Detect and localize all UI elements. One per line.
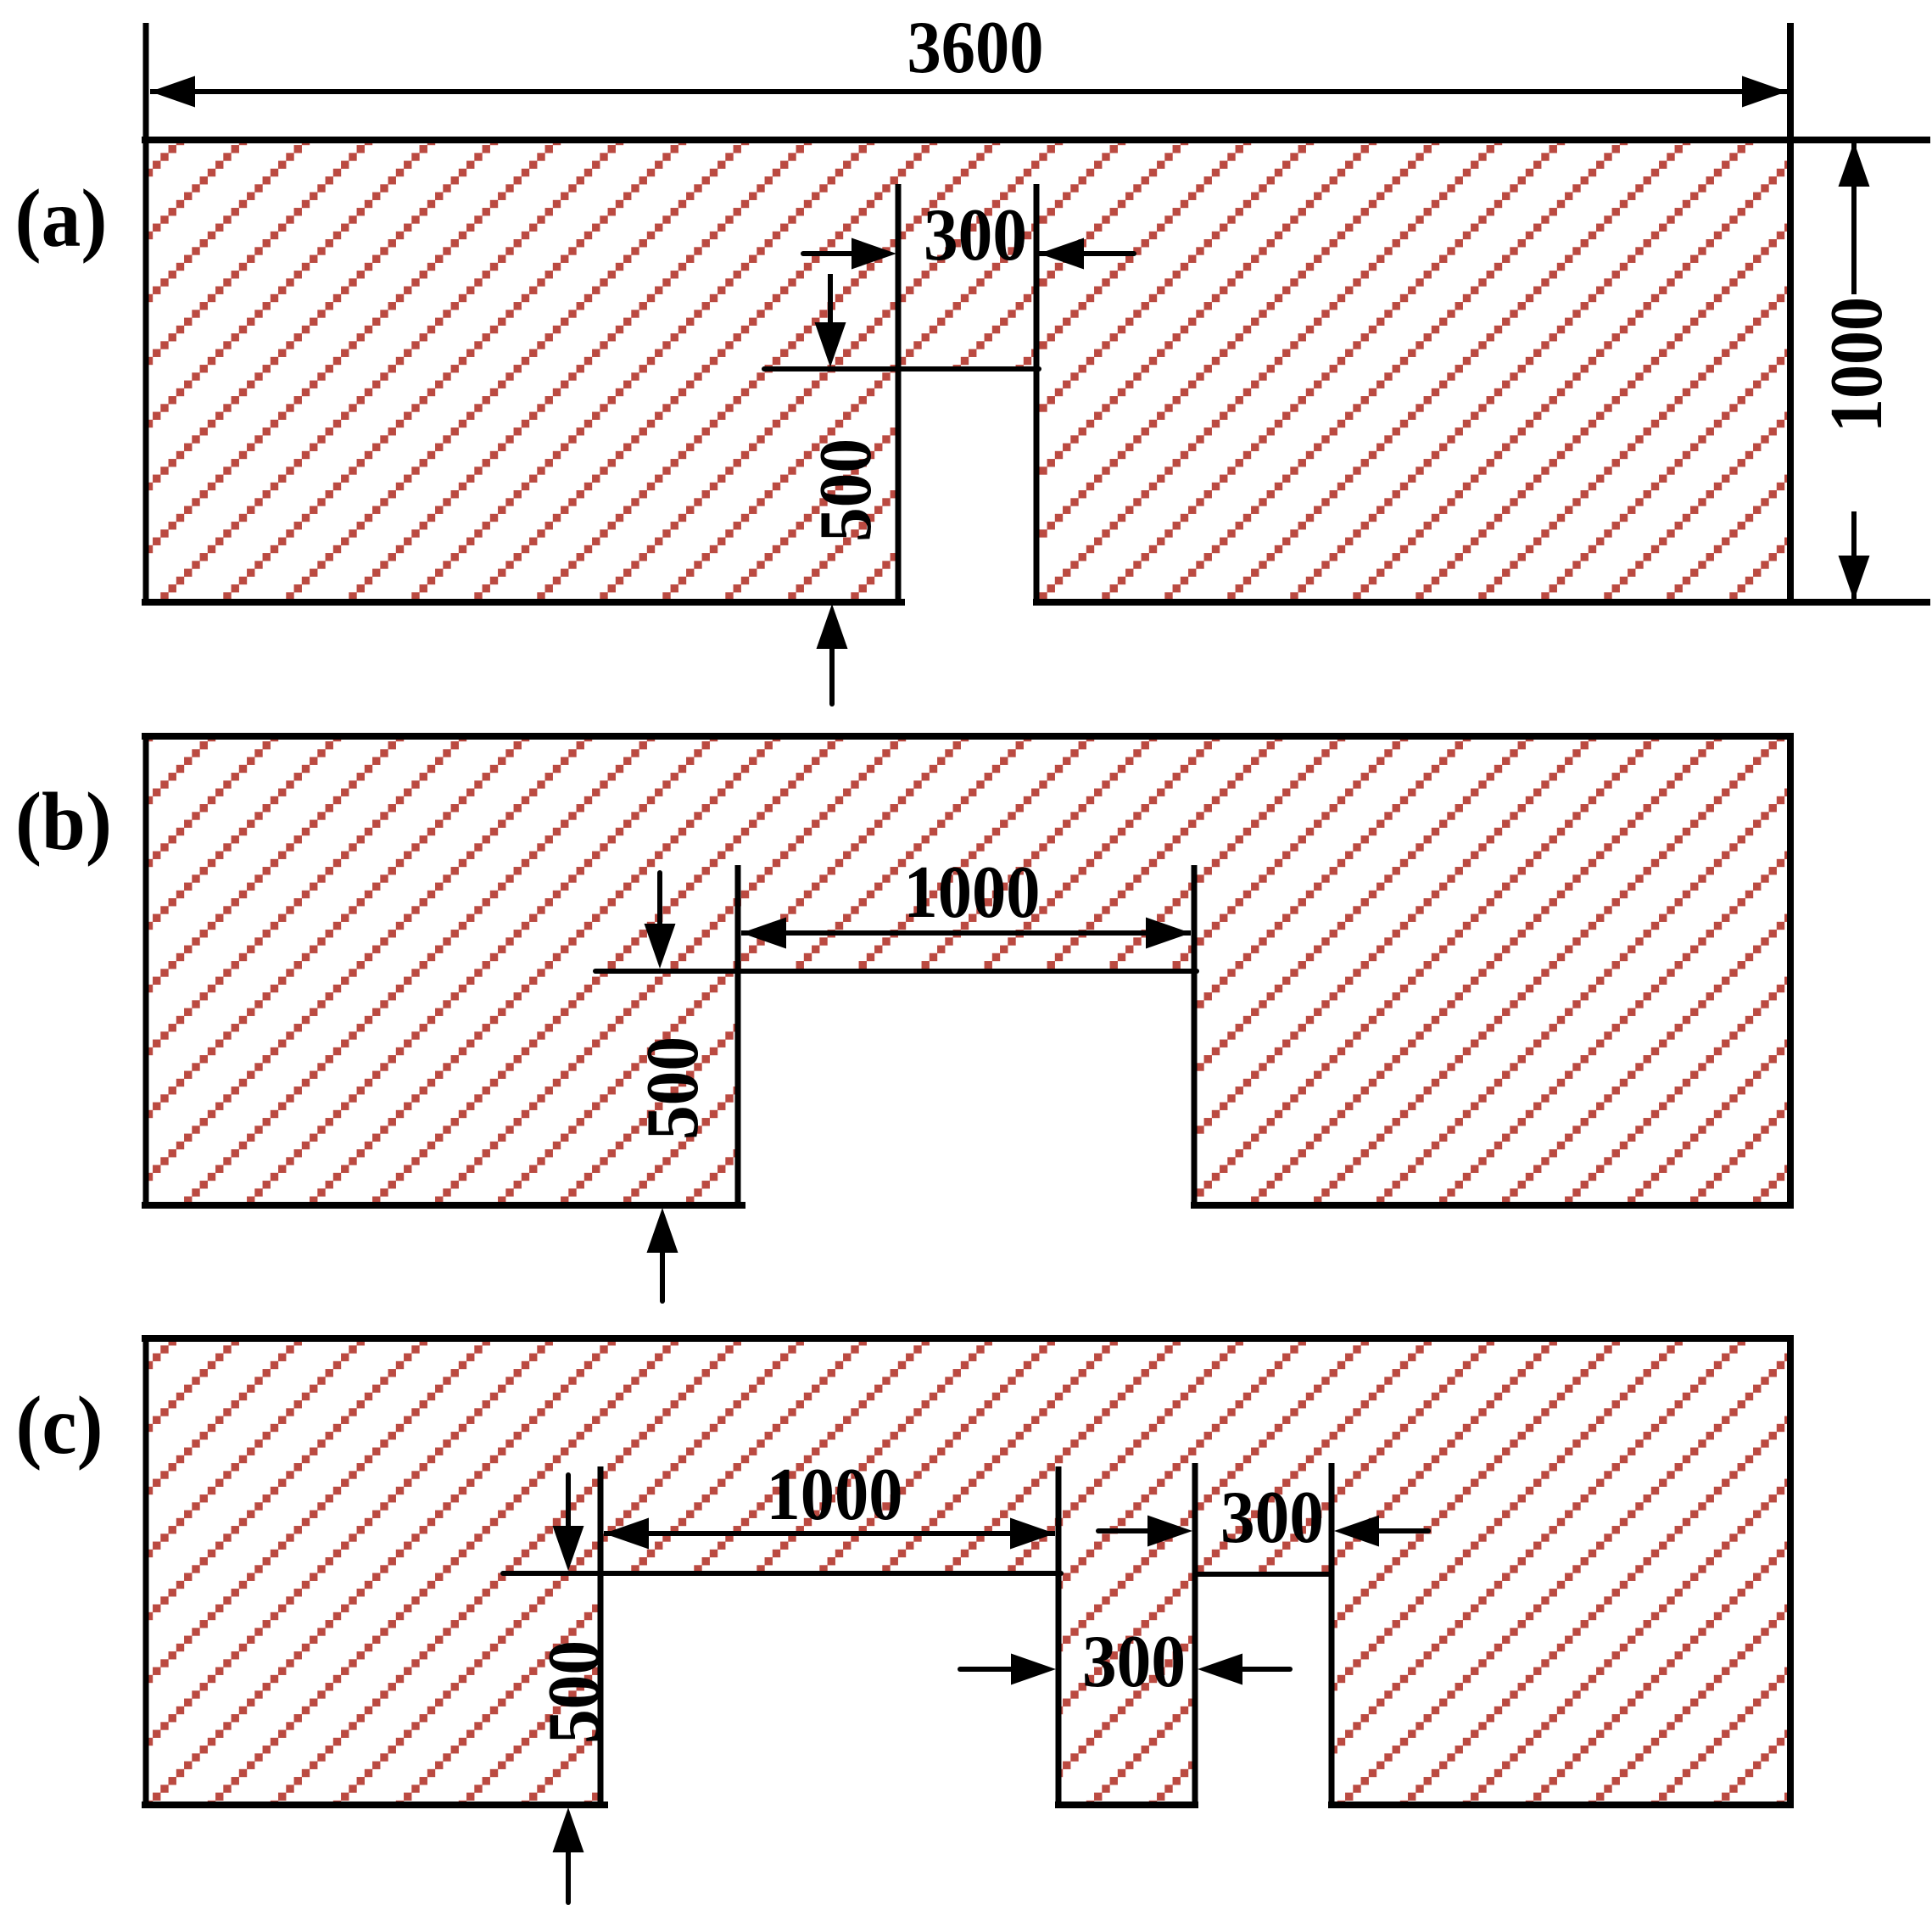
svg-text:300: 300 (1082, 1621, 1186, 1703)
svg-text:1000: 1000 (1816, 297, 1898, 433)
svg-text:500: 500 (632, 1036, 714, 1140)
svg-text:500: 500 (805, 439, 887, 542)
svg-text:(a): (a) (15, 173, 108, 265)
svg-text:1000: 1000 (904, 852, 1041, 934)
svg-text:1000: 1000 (767, 1454, 903, 1536)
svg-text:3600: 3600 (907, 7, 1044, 89)
svg-text:(b): (b) (15, 776, 112, 868)
svg-text:300: 300 (1220, 1477, 1324, 1559)
svg-text:300: 300 (924, 194, 1027, 277)
svg-text:(c): (c) (16, 1380, 103, 1472)
svg-text:500: 500 (533, 1640, 616, 1744)
